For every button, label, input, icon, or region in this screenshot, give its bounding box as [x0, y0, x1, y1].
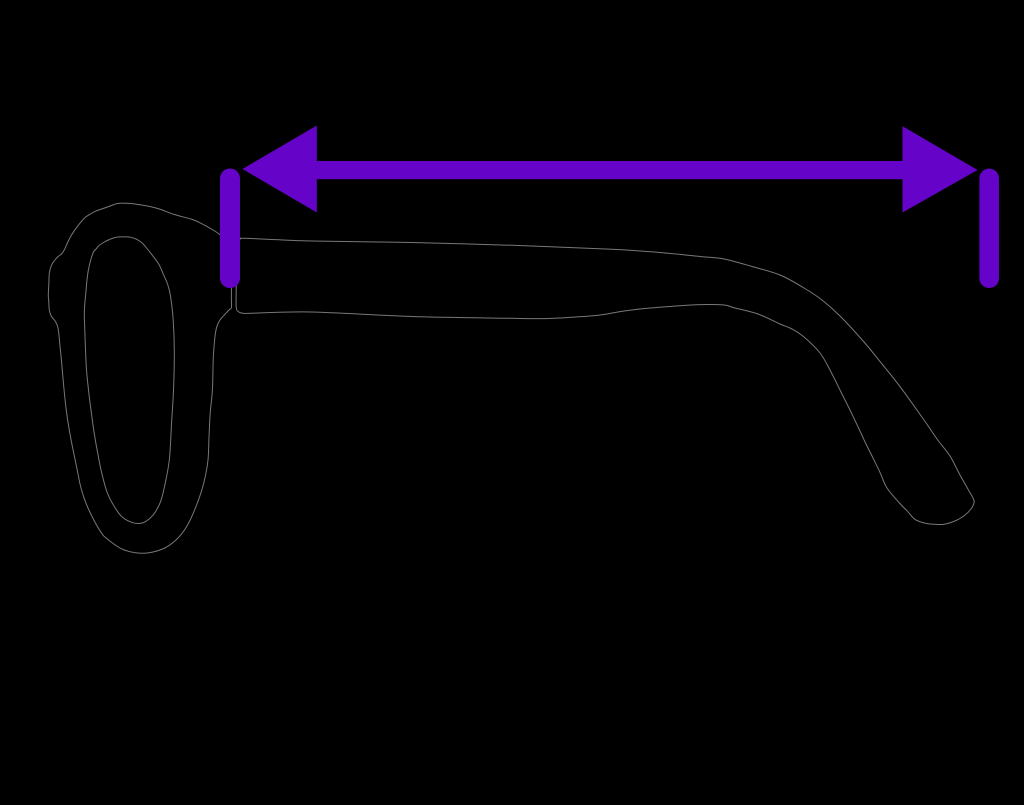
left arrowhead: [243, 126, 317, 213]
temple arm outline: [236, 238, 974, 525]
glasses frame front (outer outline): [48, 203, 231, 553]
left tick bar: [220, 169, 240, 289]
right arrowhead: [903, 126, 978, 212]
lens (inner outline): [84, 237, 174, 524]
arrow shaft: [314, 161, 906, 179]
right tick bar: [979, 169, 999, 288]
